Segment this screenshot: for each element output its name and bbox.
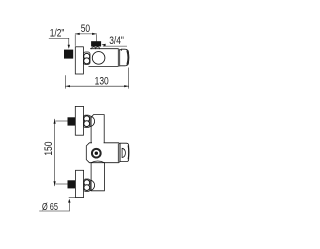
bottom horn circle (84, 180, 95, 191)
handle right edge shading (127, 146, 130, 159)
central block (86, 143, 120, 163)
top inlet horn circle (84, 116, 95, 127)
union (top view) (83, 52, 90, 65)
svg-text:3/4": 3/4" (109, 35, 124, 48)
top nut (68, 117, 76, 125)
cap dark tip (127, 51, 130, 64)
svg-text:150: 150 (43, 141, 56, 155)
svg-text:50: 50 (81, 23, 91, 36)
bottom nut (68, 180, 76, 188)
flange lip line (69, 197, 76, 199)
handle (120, 143, 129, 161)
lower column (91, 163, 104, 191)
dimension 130 (66, 68, 129, 89)
block circles (92, 149, 101, 158)
upper column (91, 115, 104, 144)
dimension 150 (55, 119, 68, 186)
svg-text:Ø 65: Ø 65 (42, 201, 58, 213)
flange plate (75, 47, 83, 74)
collar line (119, 49, 121, 66)
svg-text:1/2": 1/2" (50, 28, 65, 41)
label diameter 65 leader (40, 203, 70, 212)
texts (42, 23, 124, 212)
body outline (89, 49, 118, 67)
label 1/2" leader (49, 38, 69, 45)
cap (120, 49, 129, 66)
dome at block bottom (91, 161, 104, 163)
top union (84, 115, 91, 128)
knob circle (92, 52, 105, 65)
wall nut 1/2" (64, 50, 73, 59)
threads (92, 47, 100, 49)
bottom flange (76, 170, 84, 197)
separating line before handle (117, 144, 119, 162)
outlet fitting 3/4" black (91, 41, 101, 46)
top flange (75, 106, 83, 135)
svg-text:130: 130 (95, 76, 109, 89)
dimension 50 (75, 34, 96, 46)
handle slot (122, 148, 125, 157)
bottom union (84, 179, 91, 192)
label 3/4" leader (103, 45, 127, 48)
